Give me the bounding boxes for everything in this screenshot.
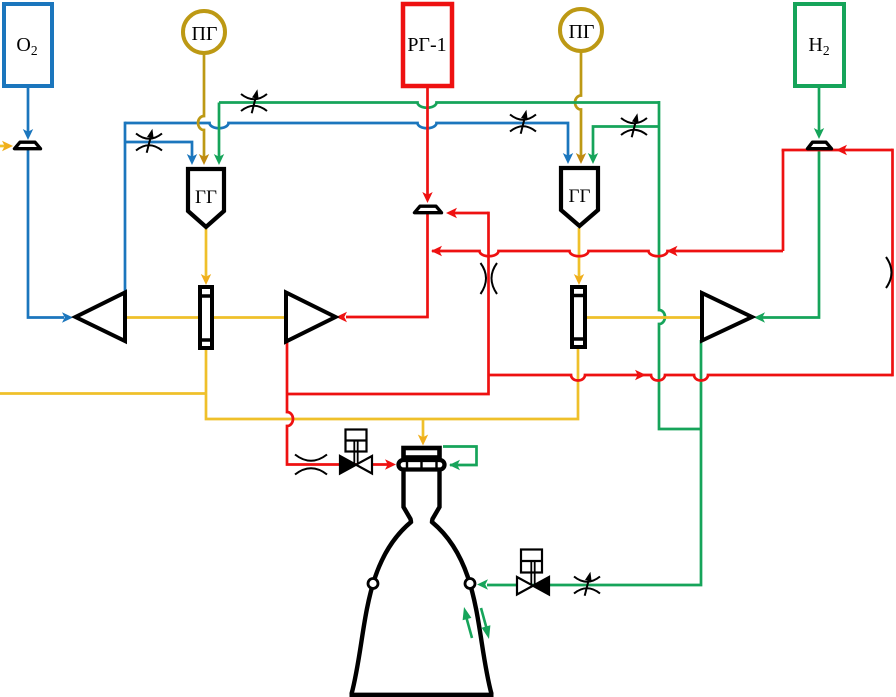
pump right (triangle pointing right) [702, 293, 752, 341]
wire blue vertical from node A down to left pump top corner [124, 122, 127, 293]
svg-text:ПГ: ПГ [568, 21, 594, 43]
wire red top right from corner to H2 mixer [782, 149, 893, 152]
mixer under O2 tank [15, 142, 41, 149]
wire green H2 feed down from tank [818, 86, 821, 132]
arrow green into left gas generator [214, 154, 224, 165]
nozzle lug right [465, 579, 475, 589]
combustion chamber body and nozzle [350, 469, 494, 695]
sensor PG right [560, 9, 602, 51]
wire green upper manifold from left gas generator corner to right vertical [219, 103, 659, 108]
arrow red into center mixer side [446, 208, 457, 218]
wire yellow branch down to chamber head [422, 419, 425, 438]
valve on green nozzle coolant line with actuator [517, 550, 549, 595]
arrow red on lower manifold y375 [635, 370, 646, 380]
gas generator GG left [188, 169, 224, 227]
wire green long vertical x659 down to join chamber coolant line [659, 101, 701, 429]
wire red from center pump bottom down to main valve and chamber [287, 341, 388, 465]
arrow yellow into chamber head [418, 435, 428, 446]
throttle on blue branch to left GG [136, 129, 162, 153]
wire green chamber collar loop [443, 447, 477, 466]
combustion chamber head [404, 448, 440, 458]
arrow green into right gas generator [588, 153, 598, 164]
tank RG-1 [403, 4, 452, 86]
throttle on green nozzle coolant line [574, 572, 600, 596]
throttle on green upper manifold [241, 89, 267, 113]
wire yellow from right turbine to right pump base [587, 316, 701, 319]
wire yellow from left pump outlet to left turbine unit [127, 316, 198, 319]
wire yellow from left edge joining yellow vertical [0, 392, 206, 395]
arrow red into H2 mixer [836, 145, 847, 155]
wire green drop into left gas generator [218, 103, 221, 158]
svg-text:ПГ: ПГ [191, 23, 217, 45]
tank O2 [4, 4, 52, 86]
arrow red at junction to RG-1 vertical [431, 246, 442, 256]
arrow red on return manifold y251 [667, 246, 678, 256]
wire yellow from left turbine bottom around to right turbine bottom [206, 348, 578, 419]
arrow olive into left gas generator [199, 154, 209, 165]
svg-text:РГ-1: РГ-1 [407, 34, 446, 56]
wire yellow from left turbine right side to center pump base [214, 316, 285, 319]
arrow green into right pump apex [754, 312, 765, 322]
tank H2 [795, 4, 844, 86]
wire red vertical x783 from H2 mixer line down to y251 manifold [782, 150, 785, 251]
wire olive from left PG sensor down to left gas generator, hop at blue crossing [198, 53, 204, 157]
arrow yellow into left turbine [201, 274, 211, 285]
arrow yellow into O2 mixer [2, 141, 13, 151]
arrow blue into right gas generator [563, 153, 573, 164]
wire red branch to center mixer side inlet [453, 212, 489, 215]
pump left (triangle pointing left) [76, 293, 126, 342]
wire yellow from left gas generator down to left turbine [205, 228, 208, 277]
arrow green into H2 mixer [814, 128, 824, 139]
wire green from right pump bottom corner down then left to nozzle cooling inlet [487, 340, 701, 585]
mixer under H2 tank [808, 142, 832, 149]
nozzle lug left [368, 579, 378, 589]
wire blue branch to left gas generator [125, 142, 192, 157]
wire olive from right PG sensor down to right gas generator, hop at green crossing [575, 51, 581, 157]
throttle on blue main manifold [510, 110, 536, 134]
arrow red into chamber collar left [385, 459, 396, 469]
wire red right edge vertical [891, 149, 894, 377]
arrow red into center mixer top [422, 192, 432, 203]
wire red lower manifold y375 from center vertical to right edge [489, 375, 893, 381]
arrow red into center pump apex [336, 312, 347, 322]
arrow blue into O2 mixer [23, 129, 33, 140]
wire blue below mixer down and right into left pump apex [28, 149, 64, 318]
wire red center vertical x488 down and left to center pump outlet line [287, 212, 489, 394]
turbine unit left [198, 287, 214, 348]
arrow olive into right gas generator [576, 153, 586, 164]
wire green branch into right gas generator [593, 127, 659, 158]
arrow blue into left pump apex [62, 312, 73, 322]
arrow green into nozzle cooling lug [477, 579, 488, 589]
venturi on red chamber line [295, 455, 327, 475]
wire yellow stub into left mixer [0, 145, 5, 148]
wire blue main manifold from node A to right gas generator [125, 123, 568, 157]
wire green below mixer down then left into right pump apex [762, 149, 819, 318]
coolant flow arrows inside nozzle [463, 607, 491, 639]
wire red return manifold y251 from right vertical to RG-1 line [432, 251, 783, 256]
venturi on red center vertical [481, 263, 498, 294]
venturi on red right edge vertical [886, 257, 892, 288]
svg-text:ГГ: ГГ [195, 187, 217, 208]
wire yellow from right gas generator down to right turbine [578, 228, 581, 277]
turbine unit right [570, 287, 587, 347]
combustion chamber collar (injector manifold) [399, 459, 445, 470]
wire red below center mixer down then left into center pump apex [346, 212, 428, 317]
arrow blue into left gas generator [187, 154, 197, 165]
gas generator GG right [561, 168, 598, 226]
svg-text:ГГ: ГГ [569, 186, 591, 207]
valve on red chamber line with actuator [340, 430, 372, 474]
mixer under RG-1 line [415, 206, 442, 213]
arrow yellow into right turbine [574, 274, 584, 285]
wire red RG-1 feed down from tank [426, 86, 429, 196]
sensor PG left [183, 11, 225, 53]
throttle on green branch to right GG [621, 113, 647, 137]
wire blue O2 feed down from tank [27, 86, 30, 133]
pump center (triangle pointing right) [286, 293, 336, 342]
arrow green into chamber collar right [449, 460, 460, 470]
